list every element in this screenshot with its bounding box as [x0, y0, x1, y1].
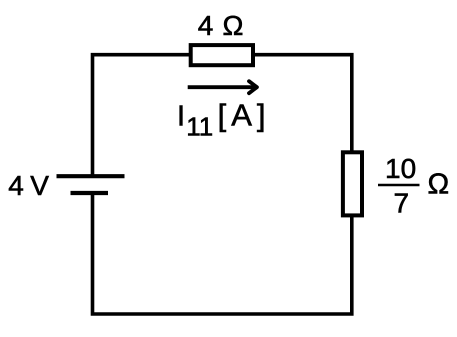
label: 4 V value of battery	[8, 170, 49, 201]
wire: circuit loop (top, right, bottom sides and left side with gap for battery)	[93, 55, 352, 314]
svg-text:Ω: Ω	[428, 169, 450, 201]
label: 4 Ohm value of R1	[198, 10, 244, 41]
svg-text:10: 10	[385, 153, 416, 184]
svg-text:11: 11	[186, 112, 213, 142]
svg-text:]: ]	[257, 97, 266, 132]
battery V1 (4 V): short negative plate	[71, 191, 109, 195]
battery V1 (4 V): long positive plate	[57, 174, 125, 178]
label: I11[A] current label	[177, 97, 266, 141]
svg-text:Ω: Ω	[223, 10, 244, 41]
svg-text:4: 4	[198, 10, 214, 41]
svg-text:I: I	[177, 101, 185, 133]
current arrow I11 (shaft)	[188, 85, 256, 89]
resistor R1 (4 Ohm) body	[191, 45, 253, 65]
svg-text:V: V	[30, 170, 49, 201]
current arrow I11 (head)	[249, 81, 257, 93]
svg-text:4: 4	[8, 170, 24, 201]
svg-text:A: A	[231, 97, 252, 132]
svg-text:[: [	[218, 97, 227, 132]
resistor R2 (10/7 Ohm) body	[343, 152, 362, 215]
svg-text:7: 7	[394, 188, 410, 219]
label: 10/7 Ohm fraction bar	[378, 184, 420, 186]
